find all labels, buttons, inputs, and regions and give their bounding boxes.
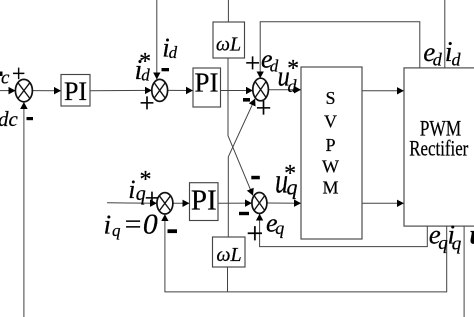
svg-text:d: d [169, 43, 178, 62]
svg-text:*: * [286, 56, 298, 82]
svg-text:+: + [145, 184, 160, 213]
svg-text:ωL: ωL [216, 244, 241, 266]
svg-text:Rectifier: Rectifier [409, 136, 469, 161]
svg-text:ωL: ωL [216, 34, 241, 56]
svg-text:q: q [112, 221, 121, 240]
svg-text:u: u [470, 219, 474, 249]
svg-text:PI: PI [64, 77, 87, 106]
svg-text:P: P [325, 135, 335, 155]
svg-text:=0: =0 [123, 209, 159, 241]
svg-text:W: W [322, 156, 339, 176]
svg-text:+: + [245, 48, 260, 78]
svg-text:V: V [324, 111, 337, 131]
svg-text:dc: dc [0, 107, 19, 131]
svg-text:+: + [139, 88, 154, 118]
svg-text:PI: PI [194, 68, 218, 98]
svg-text:S: S [325, 88, 335, 108]
svg-text:+: + [12, 61, 26, 87]
svg-text:c: c [1, 68, 10, 89]
svg-text:i: i [104, 209, 112, 240]
svg-text:q: q [275, 218, 284, 238]
svg-text:q: q [452, 233, 462, 254]
svg-text:M: M [322, 178, 338, 198]
svg-text:d: d [452, 50, 462, 70]
svg-text:*: * [138, 49, 150, 75]
svg-text:d: d [433, 50, 443, 70]
svg-text:+: + [256, 94, 272, 125]
svg-text:i: i [128, 175, 135, 204]
svg-text:*: * [283, 161, 295, 187]
svg-text:+: + [246, 217, 263, 250]
svg-text:PI: PI [191, 185, 217, 217]
